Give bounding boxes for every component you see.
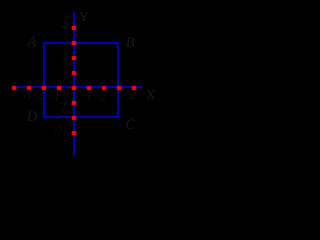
x tick label 1 — [86, 93, 91, 104]
point (4,0) — [132, 86, 136, 90]
point (0,1) — [72, 71, 76, 75]
point (3,0) — [117, 86, 121, 90]
x tick label -1 — [51, 93, 60, 104]
vertex label C — [125, 117, 135, 132]
point (0,-1) — [72, 101, 76, 105]
y tick label -2 — [55, 108, 64, 119]
y tick label 3 — [63, 38, 68, 49]
point (2,0) — [102, 86, 106, 90]
x tick label 4 — [129, 93, 134, 104]
square ABCD — [43, 42, 119, 119]
point (0,3) — [72, 41, 76, 45]
point (0,0) origin — [72, 86, 76, 90]
vertex label B — [126, 36, 135, 51]
y-axis — [73, 12, 75, 157]
x tick label 2 — [100, 92, 105, 103]
point (-3,0) — [27, 86, 31, 90]
x tick label -2 — [36, 93, 45, 104]
point (-1,0) — [57, 86, 61, 90]
point (0,2) — [72, 56, 76, 60]
y tick label -3 — [54, 126, 63, 137]
point (-2,0) — [42, 86, 46, 90]
point (1,0) — [87, 86, 91, 90]
origin label 0 — [64, 87, 69, 98]
y tick label -1 — [59, 98, 68, 109]
y tick label 2 — [62, 53, 67, 64]
x-axis — [13, 86, 142, 88]
axis name X — [145, 89, 155, 103]
x tick label -3 — [23, 92, 32, 103]
point (0,4) — [72, 26, 76, 30]
vertex label A — [28, 34, 37, 49]
x tick label 3 — [116, 92, 121, 103]
y tick label 1 — [64, 67, 69, 78]
point (0,-3) — [72, 131, 76, 135]
point (0,-2) — [72, 116, 76, 120]
y tick label 4 — [62, 22, 67, 33]
vertex label D — [27, 110, 37, 125]
axis name Y — [79, 11, 89, 25]
point (-4,0) — [12, 86, 16, 90]
